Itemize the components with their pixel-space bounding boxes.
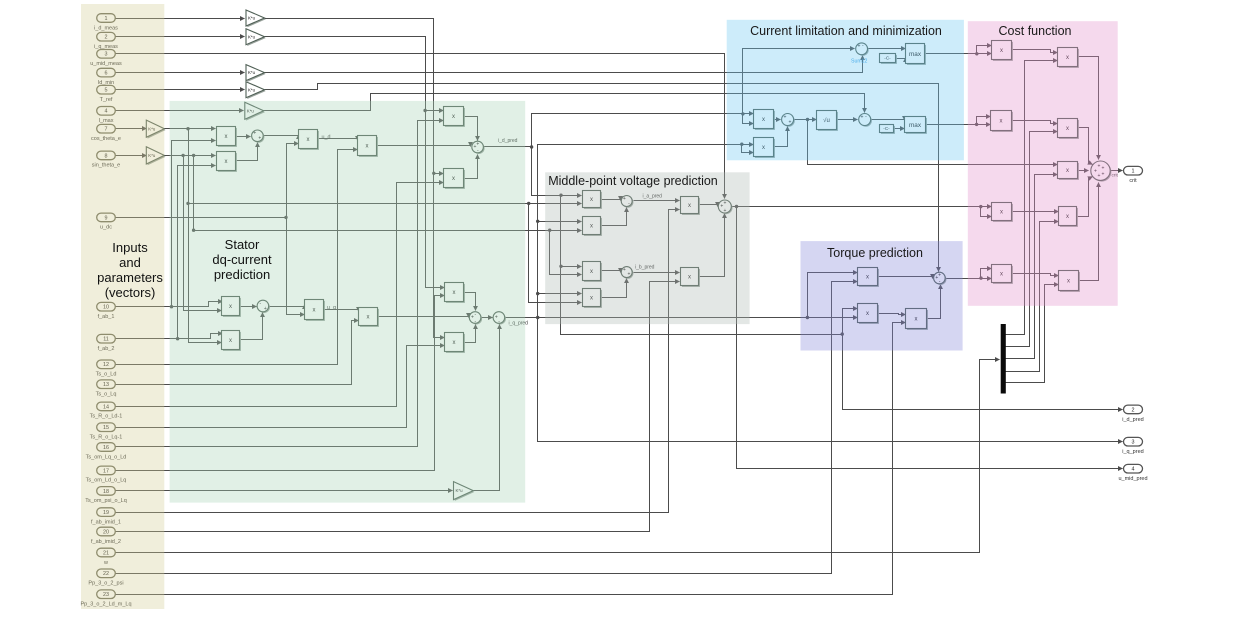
product d-bottom (i_d x TsRoLd-1) <box>444 169 465 189</box>
wire port7 cos_theta_e to gain <box>116 128 147 130</box>
svg-text:K*u: K*u <box>248 70 256 75</box>
input port 21 (w) <box>97 548 116 566</box>
product i_b x f_ab_imid_2 <box>681 268 700 287</box>
sum current limit <box>859 114 872 127</box>
sum of squares <box>782 114 795 127</box>
wire cost sq4 to w-product4 <box>1012 211 1059 213</box>
sum i_d_pred <box>472 141 485 154</box>
wire gray big sum out to cost <box>732 206 992 208</box>
wire sin bus down to q1 product <box>184 156 222 311</box>
wire torque product2 to product3 <box>878 314 906 315</box>
wire A1 product to sum a <box>601 200 621 201</box>
gain K*u port4 <box>245 102 265 120</box>
wire d-top product elbow to sum top <box>464 117 478 141</box>
wire w-product2 down to crit sum <box>1078 128 1093 165</box>
wire i_d down to output port2 <box>843 335 1123 410</box>
product cost sq5 (torque error squared) <box>992 265 1013 284</box>
input port 1 (i_d_meas) <box>94 14 118 32</box>
node i_q_meas branch <box>423 109 426 112</box>
wire product q1 to sum q <box>240 306 257 308</box>
svg-text:Stator: Stator <box>225 237 260 252</box>
svg-text:parameters: parameters <box>97 270 163 285</box>
wire i_q branch to B2 <box>538 293 582 295</box>
product weight w3 <box>1058 162 1079 180</box>
svg-text:u_mid_pred: u_mid_pred <box>1118 476 1147 482</box>
gain K*u port1 <box>246 10 266 27</box>
product u_q Ts/Lq <box>359 308 379 327</box>
output port 2 (i_d_pred) <box>1122 405 1143 423</box>
node i_q_pred junction <box>536 316 539 319</box>
output port 3 (i_q_pred) <box>1122 437 1143 455</box>
node i_d torque tap <box>841 332 844 335</box>
input port 8 (sin_theta_e) <box>92 151 120 169</box>
product A2 (i_q x sin) <box>583 217 602 236</box>
wire sin branch down to B1 <box>550 231 582 275</box>
product d-top (i_d x TsomLqoLd) <box>444 107 465 127</box>
wire product d1 to sum d <box>236 136 251 138</box>
input port 6 (Id_min) <box>97 68 116 86</box>
wire torque sum out to cost product5 <box>946 278 992 280</box>
wire i_q branch to A2 <box>538 221 582 223</box>
wire demux out5 to w-product5 <box>1006 285 1059 383</box>
node torque cost tap <box>979 276 982 279</box>
product A1 (i_d x cos) <box>583 191 602 209</box>
wire q-bottom product elbow to sum bottom <box>464 325 476 343</box>
wire cos line to gray A1 <box>189 203 582 205</box>
wire port15 Ts_R_o_Lq-1 riser <box>116 346 445 428</box>
product weight w5 <box>1059 271 1080 292</box>
wire sum2 to max2 <box>872 120 905 121</box>
input port 3 (u_mid_meas) <box>90 50 122 68</box>
product i_a x f_ab_imid_1 <box>681 197 700 215</box>
wire gain18 output riser to q sum <box>474 325 500 491</box>
node sin gray feed <box>192 229 195 232</box>
input port 10 (f_ab_1) <box>97 302 116 320</box>
wire cost sq1 to w-product1 <box>1012 50 1058 53</box>
sum i_q_pred 2 <box>493 312 506 325</box>
wire const2 to max2 <box>894 128 905 130</box>
svg-text:i_q_pred: i_q_pred <box>1122 449 1143 455</box>
wire cos branch down to B2 <box>529 204 582 303</box>
wire w-product1 down to crit sum <box>1078 57 1099 160</box>
wire port5 T_ref to gain <box>116 89 245 91</box>
gain K*u port5 <box>246 82 266 99</box>
node sin branch <box>181 154 184 157</box>
svg-text:and: and <box>119 255 141 270</box>
node max1 out tap <box>975 52 978 55</box>
svg-text:dq-current: dq-current <box>212 252 272 267</box>
svg-text:1: 1 <box>1132 169 1135 175</box>
svg-text:(vectors): (vectors) <box>105 285 156 300</box>
wire cyan product2 elbow to sum1 bottom <box>774 127 788 147</box>
product cost sq1 (id error squared) <box>992 41 1013 61</box>
input port 14 (Ts_R_o_Ld-1) <box>90 402 123 420</box>
product d1 (f_ab_1 x cos) <box>217 127 237 147</box>
product u_q pre <box>305 300 325 321</box>
wire gain2 i_q_meas down to d-top product <box>265 37 444 111</box>
wire i_q_pred up to cyan product2 <box>538 145 754 318</box>
wire gain5 T_ref long to torque sum <box>265 84 939 272</box>
node sin branch2 <box>192 154 195 157</box>
wire q sum1 to q sum2 <box>481 317 493 319</box>
sum i_b_pred <box>621 267 633 279</box>
svg-text:prediction: prediction <box>214 267 270 282</box>
wire gain4 I_max long to cyan sum <box>264 94 865 113</box>
node u_dc branch <box>284 216 287 219</box>
product B1 (i_d x sin) <box>583 262 602 282</box>
output port 1 (crit) <box>1124 166 1143 184</box>
current limitation region (cyan) <box>727 20 964 161</box>
wire sin bus2 down <box>193 156 195 231</box>
wire cos bus down <box>188 129 190 204</box>
node magnitude tap <box>806 118 809 121</box>
wire gain1 i_d_meas down to d-bottom product <box>265 19 444 174</box>
sum crit <box>1091 161 1112 182</box>
input port 5 (T_ref) <box>97 85 116 103</box>
input port 12 (Ts_o_Ld) <box>96 360 117 378</box>
wire f_ab_2 riser to d2 <box>178 166 216 339</box>
product cost sq4 (umid squared) <box>992 203 1013 222</box>
wire max1 hook to in1 <box>977 46 992 54</box>
torque prediction region (purple) <box>801 241 963 350</box>
wire torque product1 to sum <box>878 277 933 279</box>
wire port1 i_d_meas to gain <box>116 18 245 20</box>
wire port22 Pp_3_o_2_psi riser <box>116 282 858 574</box>
wire port11 f_ab_2 <box>116 334 223 339</box>
output port 4 (u_mid_pred) <box>1118 464 1147 482</box>
input port 4 (I_max) <box>97 107 116 125</box>
product q1 (f_ab x sin) <box>222 297 241 317</box>
wire torque product3 elbow to sum bottom <box>927 285 941 319</box>
wire port2 i_q_meas to gain <box>116 36 245 38</box>
wire product q2 to sum q bottom <box>240 313 263 340</box>
wire b product elbow to big sum bottom <box>699 214 725 277</box>
gain K*u port6 <box>246 65 266 82</box>
wire cyan product1 to sum1 <box>774 119 781 121</box>
wire i_d_pred sum12 riser <box>743 49 855 114</box>
wire Ts/Lq product to q sum1 <box>378 317 469 318</box>
node i_d cyan tap <box>741 112 744 115</box>
wire demux out1 to w-product1 <box>1006 61 1058 335</box>
svg-text:Current limitation and minimiz: Current limitation and minimization <box>750 24 942 38</box>
svg-text:Inputs: Inputs <box>112 240 148 255</box>
input port 23 (Pp_3_o_2_Ld_m_Lq) <box>80 590 131 608</box>
input port 16 (Ts_om_Lq_o_Ld) <box>86 443 127 461</box>
product q-bottom (i_q x TsRoLq-1) <box>445 333 465 353</box>
wire port16 Ts_om_Lq_o_Ld riser <box>116 121 444 447</box>
wire cos bus to q2 product <box>189 204 222 343</box>
wire i_q riser to torque product1 <box>808 273 858 318</box>
node u_mid tap <box>735 205 738 208</box>
node i_q A2 tap <box>536 220 539 223</box>
wire i_d_pred up to cyan product <box>532 114 754 147</box>
product i_d squared <box>754 110 775 130</box>
wire demux out3 to w-product3 <box>1006 175 1058 359</box>
wire port13 Ts_o_Lq riser <box>116 321 359 385</box>
product i_q squared <box>754 138 775 158</box>
node i_q torque tap <box>806 316 809 319</box>
wire i_q down to output port3 <box>538 318 1123 442</box>
inputs region (beige) <box>81 4 164 609</box>
node i_d_pred junction <box>530 145 533 148</box>
input port 20 (f_ab_imid_2) <box>91 527 121 545</box>
product cost sq2 (imax error squared) <box>991 111 1013 132</box>
wire demux out4 to w-product4 <box>1006 222 1059 372</box>
stator dq-current prediction region (green) <box>170 101 526 503</box>
node f_ab_1 branch <box>170 305 173 308</box>
wire w-product5 up to crit sum <box>1079 183 1099 281</box>
wire Sum12 to max1 <box>868 48 906 50</box>
svg-text:K*u: K*u <box>248 87 256 92</box>
product weight w4 <box>1059 207 1078 227</box>
product d2 (f_ab_2 x sin) <box>217 152 237 172</box>
svg-text:i_d_pred: i_d_pred <box>1122 417 1143 423</box>
product q2 (f_ab x cos) <box>222 331 241 351</box>
wire B1 product to sum b <box>601 271 621 273</box>
wire max2 hook to in1 <box>977 117 991 125</box>
wire max2 to pink product2 <box>926 124 991 126</box>
wire u_q product out <box>324 310 359 312</box>
middle-point voltage prediction region (gray) <box>545 172 749 324</box>
max block 1 <box>906 44 926 65</box>
wire i_q cyan hook to in2 <box>742 145 754 153</box>
sum i_a_pred <box>621 196 633 208</box>
wire port8 sin_theta_e to gain <box>116 155 147 157</box>
product q-top (i_q x TsomLdoLq) <box>445 283 465 303</box>
wire max1 to pink product1 <box>925 53 992 55</box>
wire w-product4 up to crit sum <box>1077 177 1093 217</box>
wire i_d_pred down to gray A1 <box>532 147 582 196</box>
sqrt block <box>817 111 838 131</box>
cost function region (pink) <box>968 21 1118 306</box>
wire u_mid branch down to port4 <box>737 207 1123 469</box>
wire sum q to u_q product <box>270 305 305 307</box>
wire u_dc riser up to u_d product <box>287 144 299 218</box>
wire crit sum to out port1 <box>1111 170 1123 172</box>
sum q-axis <box>257 300 270 313</box>
wire magnitude branch down to cost product3 <box>808 120 1058 165</box>
sum d-axis <box>252 130 265 143</box>
wire demux out2 to w-product2 <box>1006 132 1058 347</box>
node i_d B1 tap <box>559 265 562 268</box>
wire d-bottom product elbow to sum bottom <box>464 155 478 179</box>
product u_d x Ts/Ld pre <box>299 130 319 150</box>
product torque psi x i_q <box>858 268 879 287</box>
node u_mid cost tap <box>979 205 982 208</box>
wire port21 w to demux <box>116 360 1000 553</box>
wire Ts/Ld product to d sum2 <box>377 146 471 147</box>
wire gain7 cos to product d1 <box>165 128 216 130</box>
wire f_ab_1 riser to d1 <box>172 141 216 307</box>
product torque Ld-Lq x i_d <box>858 304 879 324</box>
node cos to B2 tap <box>527 202 530 205</box>
gain K*u port2 <box>246 29 266 46</box>
product weight w2 <box>1058 119 1079 139</box>
svg-text:3: 3 <box>1132 440 1135 446</box>
wire gain1 branch down to q-bottom product <box>434 174 445 338</box>
max block 2 <box>905 117 927 134</box>
wire port9 u_dc <box>116 217 287 219</box>
wire port18 Ts_om_psi_o_Lq to gain <box>116 490 453 492</box>
wire i_q right to torque <box>538 317 858 319</box>
wire cost sq2 to w-product2 <box>1012 121 1058 124</box>
input port 22 (Pp_3_o_2_psi) <box>88 569 123 587</box>
wire product d2 to sum d bottom <box>236 143 258 161</box>
svg-text:Middle-point voltage predictio: Middle-point voltage prediction <box>548 174 718 188</box>
input port 15 (Ts_R_o_Lq-1) <box>90 423 123 441</box>
product B2 (i_q x cos) <box>583 289 602 308</box>
sum u_mid big <box>718 200 732 214</box>
wire i_d to torque and port2 <box>561 267 843 335</box>
wire const1 to max1 <box>896 58 906 59</box>
wire port17 Ts_om_Ld_o_Lq riser <box>116 296 445 471</box>
svg-text:2: 2 <box>1132 407 1135 413</box>
wire torque hook to cost in1 <box>981 269 992 279</box>
wire port23 Pp_3_o_2_Ld_m_Lq riser <box>116 323 906 595</box>
gain K*u port18 <box>454 482 475 501</box>
input port 2 (i_q_meas) <box>94 32 118 50</box>
wire gain2 branch down to q-top product <box>426 111 445 288</box>
svg-text:K*u: K*u <box>248 16 256 21</box>
constant -C- 1 <box>880 54 897 64</box>
wire port4 I_max to gain <box>116 110 244 112</box>
wire a product to big sum <box>699 205 718 207</box>
wire u_d product out <box>318 139 358 141</box>
wire sum d to u_d product <box>264 135 299 136</box>
wire gain8 sin to product d2 <box>165 155 216 157</box>
wire port3 u_mid_meas to gray sum top <box>116 54 725 199</box>
wire w-product3 to crit sum <box>1078 170 1089 172</box>
constant -C- 2 <box>880 125 895 134</box>
wire i_d_pred out of sum <box>484 146 532 148</box>
node max2 out tap <box>975 123 978 126</box>
wire sum1 to sqrt <box>795 119 817 121</box>
wire i_d_pred cyan hook to in2 <box>743 114 754 124</box>
wire i_d riser to torque product2 <box>843 309 858 335</box>
wire port10 f_ab_1 <box>116 302 223 307</box>
input port 17 (Ts_om_Ld_o_Lq) <box>86 466 127 484</box>
demux weights bar <box>1001 324 1006 394</box>
wire B2 product to sum b bottom <box>601 279 627 298</box>
gain K*u port7 cos <box>146 120 165 139</box>
svg-text:K*u: K*u <box>248 34 256 39</box>
wire i_d branch down via x=561 <box>561 196 582 267</box>
svg-text:Cost function: Cost function <box>999 24 1072 38</box>
wire port19 f_ab_imid_1 riser <box>116 210 680 513</box>
sum torque <box>934 272 947 285</box>
product weight w1 <box>1058 48 1079 68</box>
node cos gray feed <box>186 202 189 205</box>
product torque x i_q <box>906 309 928 330</box>
wire A2 product to sum a bottom <box>601 208 627 226</box>
input port 19 (f_ab_imid_1) <box>91 508 121 526</box>
wire i_q_pred out of sum <box>505 317 538 319</box>
node i_q B2 tap <box>536 292 539 295</box>
input port 13 (Ts_o_Lq) <box>96 380 117 398</box>
wire q-top product elbow to sum top <box>464 293 476 311</box>
svg-text:crit: crit <box>1129 178 1137 184</box>
input port 11 (f_ab_2) <box>97 334 116 352</box>
wire sin line to gray A2 <box>194 230 582 232</box>
wire port6 Id_min to Sum12 bottom <box>116 72 245 74</box>
node cos branch <box>186 127 189 130</box>
svg-text:4: 4 <box>1132 467 1135 473</box>
wire sum a i_a_pred to product <box>634 200 680 202</box>
svg-text:Torque prediction: Torque prediction <box>827 246 923 260</box>
wire sum b i_b_pred to product <box>634 272 680 274</box>
input port 18 (Ts_om_psi_o_Lq) <box>85 487 127 505</box>
node i_q cyan tap <box>740 143 743 146</box>
product u_d Ts/Ld <box>358 136 378 157</box>
wire cost sq5 to w-product5 <box>1012 274 1059 276</box>
node i_d A1 tap <box>559 194 562 197</box>
sum i_q_pred 1 <box>469 312 482 325</box>
input port 7 (cos_theta_e) <box>91 124 121 142</box>
wire sqrt to sum2 <box>837 119 858 121</box>
sum Sum12 <box>856 43 869 56</box>
wire port14 Ts_R_o_Ld-1 riser <box>116 183 444 407</box>
node i_d_meas branch <box>432 172 435 175</box>
gain K*u port8 sin <box>146 147 165 166</box>
input port 9 (u_dc) <box>97 213 116 231</box>
wire port12 Ts_o_Ld riser <box>116 150 358 365</box>
node sin to B1 tap <box>548 229 551 232</box>
wire u_mid hook to cost in2 <box>981 207 992 217</box>
wire port20 f_ab_imid_2 riser <box>116 282 680 532</box>
node f_ab_2 branch <box>176 337 179 340</box>
wire gain6 Id_min long to Sum12 <box>265 56 863 73</box>
wire u_dc riser down to u_q product <box>287 218 305 315</box>
